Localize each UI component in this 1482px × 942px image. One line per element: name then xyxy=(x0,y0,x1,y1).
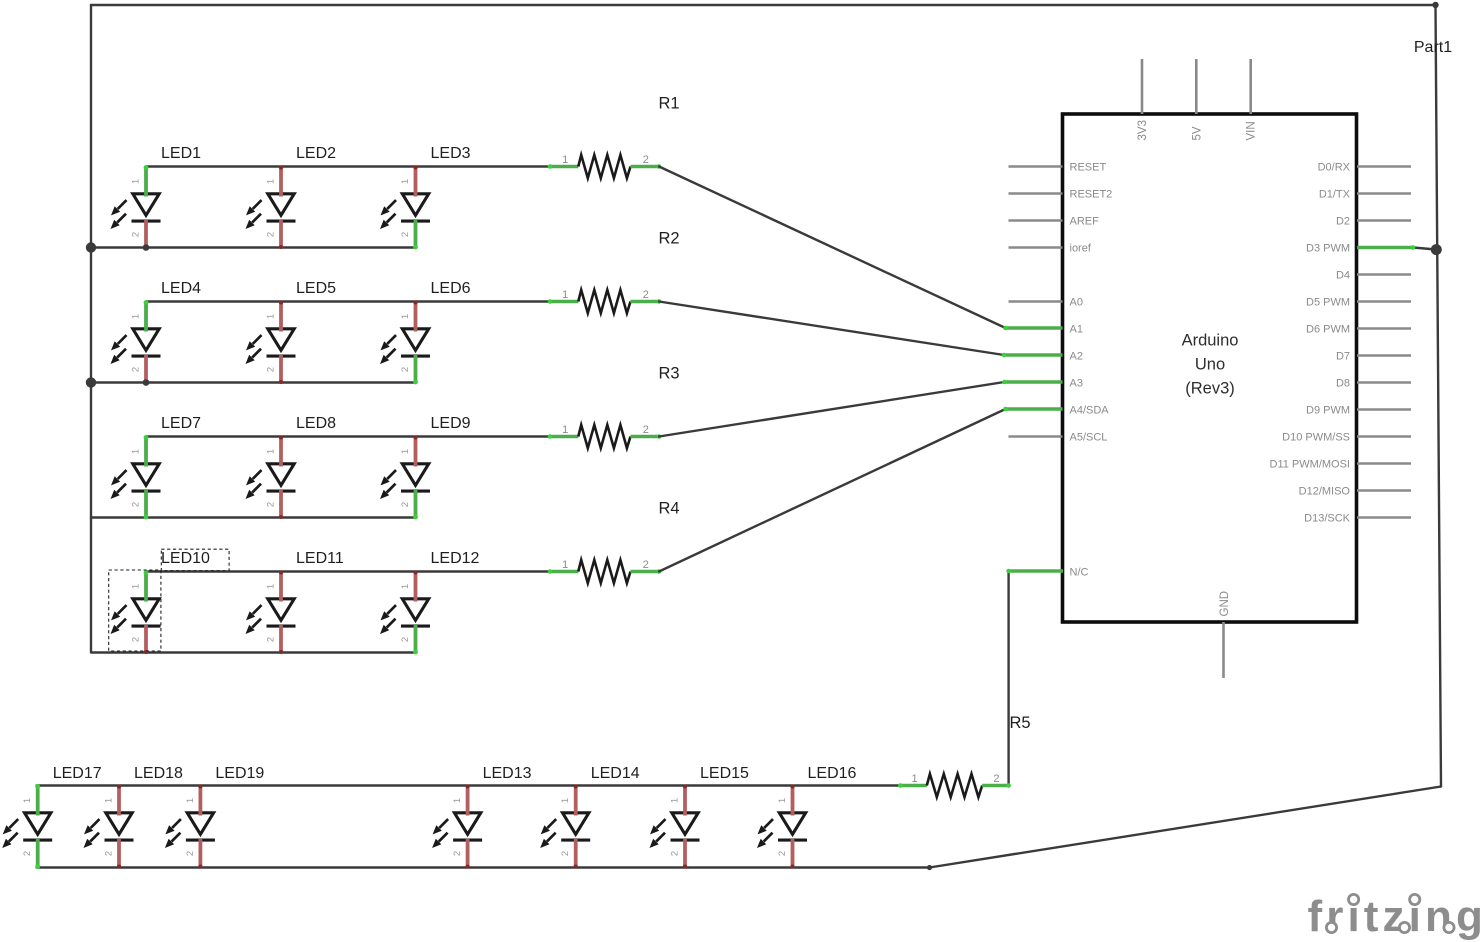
svg-text:1: 1 xyxy=(266,449,277,454)
svg-text:R5: R5 xyxy=(1010,714,1031,732)
svg-text:D3 PWM: D3 PWM xyxy=(1306,243,1350,255)
svg-text:1: 1 xyxy=(400,314,411,319)
svg-text:1: 1 xyxy=(452,798,463,803)
svg-text:1: 1 xyxy=(131,449,142,454)
svg-text:1: 1 xyxy=(131,584,142,589)
svg-text:LED4: LED4 xyxy=(161,280,201,297)
svg-text:2: 2 xyxy=(131,232,142,237)
svg-text:1: 1 xyxy=(266,179,277,184)
svg-text:2: 2 xyxy=(643,424,649,436)
svg-text:LED12: LED12 xyxy=(431,550,480,567)
svg-text:1: 1 xyxy=(670,798,681,803)
svg-text:AREF: AREF xyxy=(1070,216,1100,228)
svg-text:A0: A0 xyxy=(1070,297,1083,309)
svg-text:1: 1 xyxy=(911,773,917,785)
svg-text:LED9: LED9 xyxy=(431,415,471,432)
svg-text:LED15: LED15 xyxy=(700,765,749,782)
svg-text:3V3: 3V3 xyxy=(1137,120,1149,140)
svg-text:A1: A1 xyxy=(1070,324,1083,336)
svg-text:1: 1 xyxy=(266,314,277,319)
svg-text:RESET2: RESET2 xyxy=(1070,189,1113,201)
svg-text:2: 2 xyxy=(560,851,571,856)
svg-text:1: 1 xyxy=(22,798,33,803)
svg-text:2: 2 xyxy=(266,232,277,237)
svg-text:D12/MISO: D12/MISO xyxy=(1299,486,1351,498)
svg-text:1: 1 xyxy=(562,559,568,571)
svg-text:2: 2 xyxy=(400,232,411,237)
svg-text:Part1: Part1 xyxy=(1414,39,1452,56)
svg-text:2: 2 xyxy=(266,367,277,372)
svg-text:2: 2 xyxy=(993,773,999,785)
svg-text:1: 1 xyxy=(131,314,142,319)
svg-text:D13/SCK: D13/SCK xyxy=(1304,513,1351,525)
svg-text:GND: GND xyxy=(1219,591,1231,617)
svg-text:R3: R3 xyxy=(659,365,680,383)
svg-text:LED17: LED17 xyxy=(53,765,102,782)
svg-text:5V: 5V xyxy=(1191,126,1203,140)
svg-text:1: 1 xyxy=(400,584,411,589)
svg-text:D1/TX: D1/TX xyxy=(1319,189,1351,201)
svg-text:2: 2 xyxy=(777,851,788,856)
svg-text:2: 2 xyxy=(22,851,33,856)
svg-text:D9 PWM: D9 PWM xyxy=(1306,405,1350,417)
svg-text:LED10: LED10 xyxy=(161,550,210,567)
svg-text:2: 2 xyxy=(643,154,649,166)
svg-text:LED5: LED5 xyxy=(296,280,336,297)
svg-text:1: 1 xyxy=(266,584,277,589)
svg-text:ioref: ioref xyxy=(1070,243,1092,255)
svg-text:D5 PWM: D5 PWM xyxy=(1306,297,1350,309)
svg-text:2: 2 xyxy=(400,502,411,507)
svg-text:N/C: N/C xyxy=(1070,567,1089,579)
svg-text:1: 1 xyxy=(562,154,568,166)
svg-text:VIN: VIN xyxy=(1246,121,1258,140)
svg-text:1: 1 xyxy=(131,179,142,184)
svg-text:R4: R4 xyxy=(659,500,680,518)
svg-text:1: 1 xyxy=(562,289,568,301)
svg-text:2: 2 xyxy=(670,851,681,856)
svg-text:R1: R1 xyxy=(659,95,680,113)
svg-text:LED2: LED2 xyxy=(296,145,336,162)
svg-text:LED1: LED1 xyxy=(161,145,201,162)
svg-text:2: 2 xyxy=(400,367,411,372)
svg-text:LED14: LED14 xyxy=(591,765,640,782)
svg-text:D11 PWM/MOSI: D11 PWM/MOSI xyxy=(1270,459,1350,471)
svg-text:D7: D7 xyxy=(1336,351,1350,363)
svg-text:1: 1 xyxy=(777,798,788,803)
svg-text:2: 2 xyxy=(266,637,277,642)
svg-text:D10 PWM/SS: D10 PWM/SS xyxy=(1282,432,1350,444)
svg-text:2: 2 xyxy=(185,851,196,856)
svg-text:LED11: LED11 xyxy=(296,550,344,567)
svg-text:LED16: LED16 xyxy=(808,765,857,782)
svg-text:fritzing: fritzing xyxy=(1308,892,1482,941)
svg-text:2: 2 xyxy=(131,637,142,642)
svg-text:A2: A2 xyxy=(1070,351,1083,363)
svg-text:1: 1 xyxy=(104,798,115,803)
svg-text:2: 2 xyxy=(131,502,142,507)
svg-text:LED19: LED19 xyxy=(215,765,264,782)
svg-text:1: 1 xyxy=(562,424,568,436)
svg-text:D2: D2 xyxy=(1336,216,1350,228)
svg-text:1: 1 xyxy=(400,179,411,184)
svg-text:LED13: LED13 xyxy=(483,765,532,782)
svg-text:A4/SDA: A4/SDA xyxy=(1070,405,1110,417)
svg-text:LED6: LED6 xyxy=(431,280,471,297)
svg-text:1: 1 xyxy=(400,449,411,454)
svg-text:D8: D8 xyxy=(1336,378,1350,390)
svg-text:2: 2 xyxy=(643,289,649,301)
svg-text:2: 2 xyxy=(452,851,463,856)
svg-text:2: 2 xyxy=(104,851,115,856)
svg-text:(Rev3): (Rev3) xyxy=(1185,380,1235,398)
svg-text:RESET: RESET xyxy=(1070,162,1107,174)
svg-text:LED7: LED7 xyxy=(161,415,201,432)
svg-text:R2: R2 xyxy=(659,230,680,248)
svg-text:1: 1 xyxy=(185,798,196,803)
svg-text:2: 2 xyxy=(266,502,277,507)
svg-text:LED3: LED3 xyxy=(431,145,471,162)
svg-text:LED8: LED8 xyxy=(296,415,336,432)
svg-text:A5/SCL: A5/SCL xyxy=(1070,432,1108,444)
svg-text:D4: D4 xyxy=(1336,270,1350,282)
svg-text:1: 1 xyxy=(560,798,571,803)
svg-text:Arduino: Arduino xyxy=(1182,332,1239,350)
svg-text:D0/RX: D0/RX xyxy=(1318,162,1351,174)
svg-text:2: 2 xyxy=(400,637,411,642)
svg-text:A3: A3 xyxy=(1070,378,1083,390)
svg-text:LED18: LED18 xyxy=(134,765,183,782)
svg-text:D6 PWM: D6 PWM xyxy=(1306,324,1350,336)
svg-text:Uno: Uno xyxy=(1195,356,1225,374)
svg-text:2: 2 xyxy=(131,367,142,372)
svg-text:2: 2 xyxy=(643,559,649,571)
